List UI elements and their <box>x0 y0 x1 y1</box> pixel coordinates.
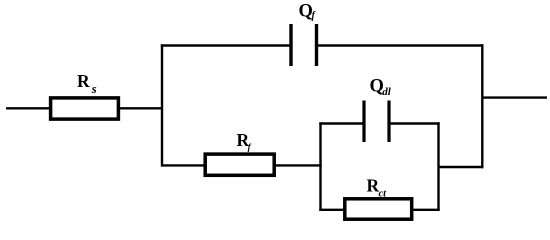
wire Qf to node B <box>317 44 484 46</box>
svg-text:R: R <box>77 71 90 91</box>
node A branch vertical <box>161 44 163 166</box>
node C inner branch vertical <box>319 122 321 211</box>
svg-text:s: s <box>91 82 97 96</box>
wire Rf to node C <box>274 164 322 166</box>
resistor Rf <box>205 154 274 175</box>
node D inner branch vertical <box>437 122 439 211</box>
wire node C to Qdl <box>319 122 364 124</box>
capacitor Qdl <box>364 101 389 143</box>
capacitor Qf <box>291 24 317 66</box>
wire output lead <box>482 96 547 98</box>
node B right branch vertical <box>481 44 483 168</box>
wire node D to node B <box>439 166 484 168</box>
wire node C to Rct <box>319 209 345 211</box>
wire Rct to node D <box>412 209 440 211</box>
svg-text:ct: ct <box>379 188 388 199</box>
wire Rs to node A <box>119 107 163 109</box>
wire node A to Qf <box>161 44 291 46</box>
wire node A to Rf <box>162 164 205 166</box>
wire Qdl to node D <box>389 122 440 124</box>
wire input lead <box>6 107 50 109</box>
svg-text:dl: dl <box>382 86 392 98</box>
svg-text:f: f <box>312 11 317 22</box>
resistor Rs <box>51 98 119 119</box>
svg-text:f: f <box>248 142 252 152</box>
resistor Rct <box>345 199 412 219</box>
